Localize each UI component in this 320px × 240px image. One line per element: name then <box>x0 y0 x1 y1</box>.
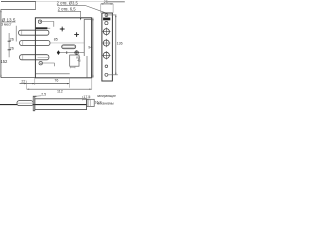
internal box <box>70 55 79 66</box>
internal vertical wall upper <box>83 19 85 56</box>
dimension 94 line <box>92 18 94 78</box>
bolt spacing arrow ticks <box>8 41 11 50</box>
top-left vertical tick at x=35.5 <box>35 2 37 10</box>
bolt 1 <box>19 30 49 35</box>
svg-text:26: 26 <box>10 38 14 42</box>
internal dark bar (spring) <box>36 27 48 29</box>
bottom hole leader <box>42 63 54 66</box>
dim A extension verticals <box>27 78 70 89</box>
top border line right segment <box>108 1 125 3</box>
filled diamond pivot <box>57 50 60 55</box>
bolt 2 <box>20 41 50 46</box>
svg-text:25: 25 <box>104 0 108 4</box>
faceplate bolt hole 1 <box>103 29 109 35</box>
svg-text:22: 22 <box>21 80 25 84</box>
dim A arrows and ticks <box>24 83 69 84</box>
callout underline <box>1 21 15 23</box>
faceplate small hole 2 <box>105 22 108 25</box>
svg-text:152: 152 <box>0 59 8 64</box>
bolt 3 <box>20 55 49 60</box>
svg-text:17,5: 17,5 <box>83 95 90 99</box>
svg-text:112: 112 <box>57 89 63 93</box>
svg-text:2,5: 2,5 <box>41 93 46 97</box>
svg-text:механизмы: механизмы <box>97 102 114 106</box>
svg-text:136: 136 <box>117 41 123 45</box>
case internal bottom line <box>35 73 69 75</box>
faceplate latch opening (filled) <box>103 18 110 21</box>
internal vertical wall lower <box>86 56 88 78</box>
side view case body <box>35 99 87 110</box>
svg-text:3 мест: 3 мест <box>1 22 12 26</box>
svg-text:94: 94 <box>88 46 92 50</box>
lock case body <box>35 18 91 78</box>
bolt spacing dimension line <box>8 33 10 57</box>
top-left horizontal line y=9.5 <box>1 9 36 11</box>
top border line left segment <box>1 1 36 3</box>
svg-text:76: 76 <box>54 79 58 83</box>
bolt 3 centerline <box>38 56 49 58</box>
top border line middle faint segment <box>36 1 108 3</box>
faceplate <box>102 13 113 81</box>
bolt 2 axis line to the right <box>51 42 84 44</box>
center mark cross 2 <box>74 32 79 37</box>
faceplate small hole 3 <box>105 65 108 68</box>
bottom dimension line A <box>20 83 70 85</box>
dimension 152 extension vertical <box>0 10 2 78</box>
case bottom mounting hole <box>39 62 42 65</box>
dimension 152 arrowheads <box>0 11 1 77</box>
center mark cross 1 <box>60 27 65 32</box>
top hole leader <box>42 22 54 27</box>
side view bolt centerline <box>18 102 33 104</box>
slotted hole <box>62 45 76 49</box>
svg-text:запирающие: запирающие <box>97 94 116 98</box>
svg-text:2 отв. Ø3,5: 2 отв. Ø3,5 <box>57 1 79 6</box>
faceplate small hole 4 <box>105 73 108 76</box>
faceplate top small hole <box>105 14 108 17</box>
dim B right extension to case corner <box>91 78 93 89</box>
faceplate bolt hole 2 <box>103 40 109 46</box>
side view strike box <box>87 99 94 106</box>
rivet with cross <box>75 51 78 54</box>
side view bolt <box>17 101 33 106</box>
side view front plate <box>33 96 35 111</box>
tick on lever line <box>66 51 68 54</box>
dimension 136 line <box>115 15 117 75</box>
side view door line <box>0 104 87 106</box>
internal top tick <box>84 18 91 20</box>
lever centerline <box>57 52 84 54</box>
svg-text:26: 26 <box>10 46 14 50</box>
svg-text:45: 45 <box>77 59 81 63</box>
case top mounting hole <box>38 20 41 23</box>
svg-text:2 отв. 6,5: 2 отв. 6,5 <box>58 7 77 12</box>
svg-text:85: 85 <box>54 37 58 41</box>
box foot detail <box>70 66 75 68</box>
bottom dimension line B <box>27 88 92 90</box>
dimension 152 bottom extension horizontal <box>1 77 36 79</box>
callout leader down to bolt 1 <box>15 26 17 42</box>
faceplate bolt hole 3 <box>103 52 109 58</box>
